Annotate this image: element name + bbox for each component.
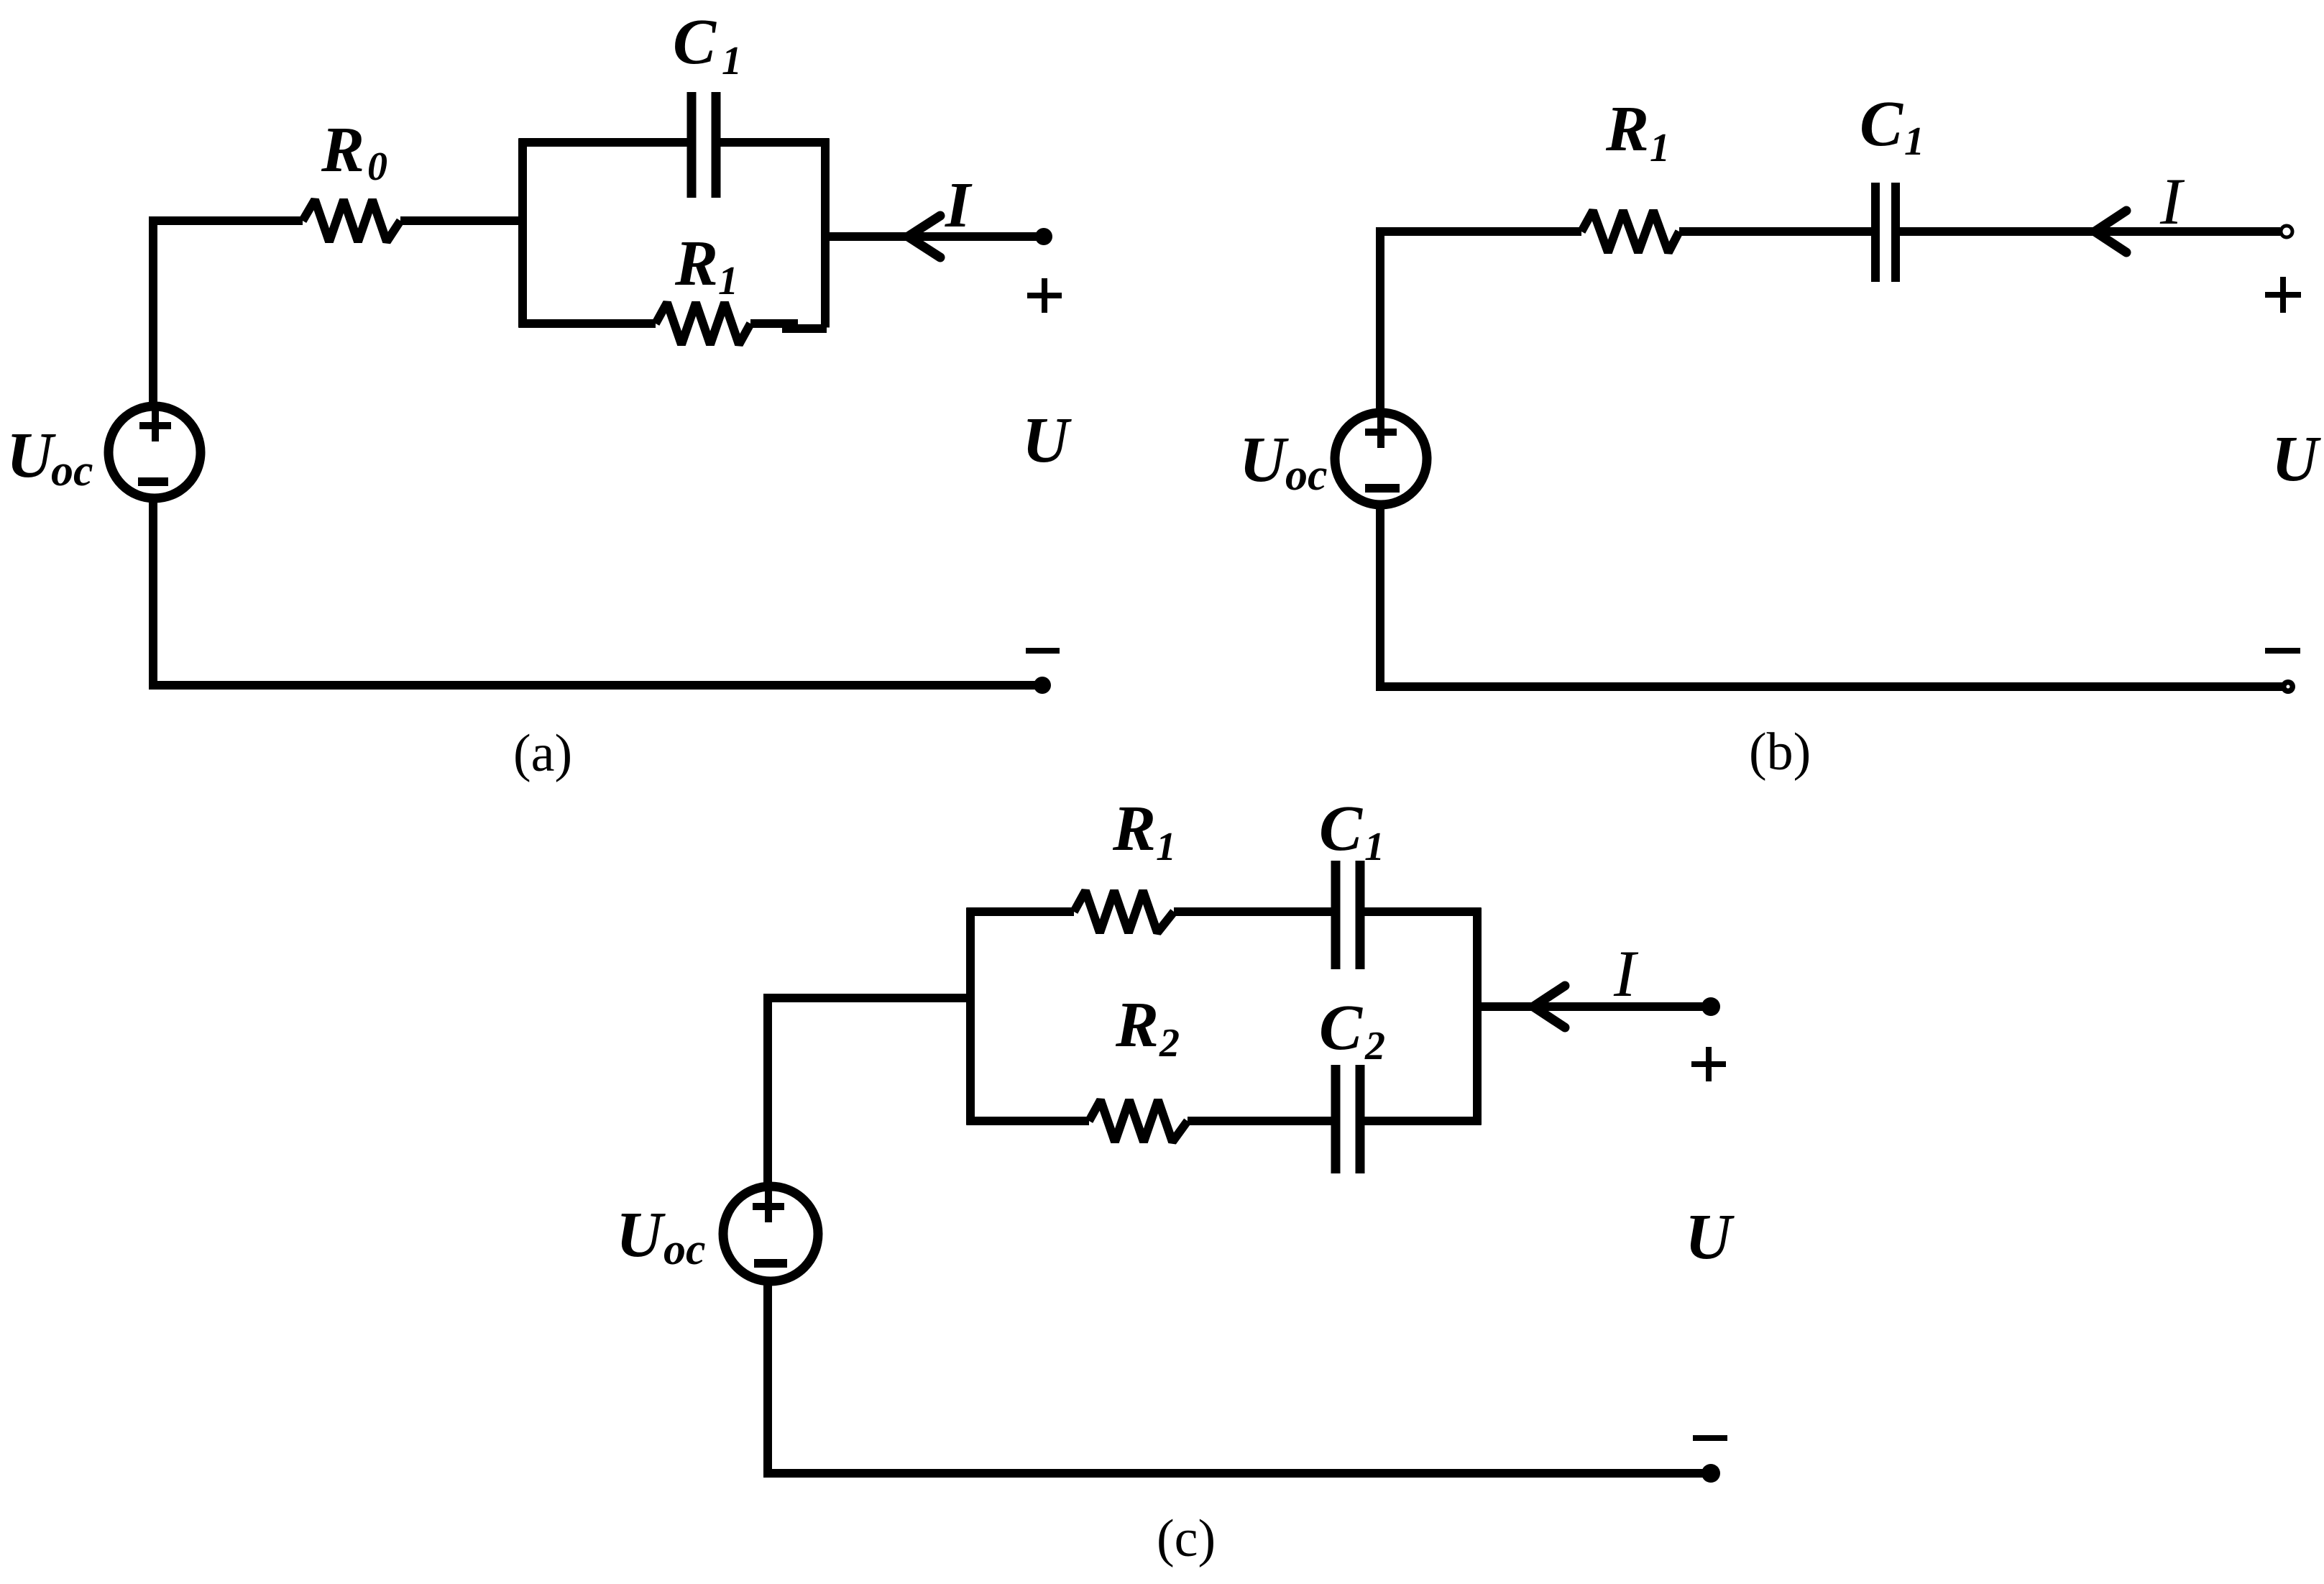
svg-text:U: U: [6, 420, 56, 491]
capacitor C2 left plate (c): [1331, 1065, 1341, 1173]
svg-text:R: R: [321, 114, 364, 186]
minus inside source (b): [1365, 484, 1400, 493]
output wire I (c): [1477, 1002, 1711, 1011]
svg-text:2: 2: [1159, 1021, 1180, 1066]
svg-text:oc: oc: [51, 447, 93, 495]
terminal dot top (a): [1035, 228, 1052, 245]
resistor R1 zigzag (a): [656, 303, 750, 344]
box top edge mid segment (c): [1174, 907, 1331, 916]
capacitor C1 right plate (c): [1356, 861, 1365, 969]
wire bottom loop (a): [153, 498, 1042, 685]
svg-text:R: R: [1605, 93, 1649, 165]
svg-text:U: U: [2272, 424, 2321, 495]
svg-text:I: I: [945, 170, 973, 241]
minus terminal sign (a): [1026, 648, 1060, 654]
wire R1 to C1 (b): [1679, 227, 1871, 236]
minus terminal sign (b): [2265, 648, 2300, 654]
svg-text:C: C: [1860, 88, 1903, 160]
resistor R1 zigzag (c): [1074, 891, 1174, 933]
svg-text:1: 1: [1650, 126, 1670, 170]
capacitor C1 right plate (a): [712, 92, 721, 198]
plus inside source (c): [753, 1191, 784, 1222]
svg-text:2: 2: [1364, 1024, 1385, 1068]
wire C1 to terminal (b): [1900, 227, 2280, 236]
wire top-left L (a): [153, 221, 303, 406]
box bottom edge mid segment (c): [1188, 1117, 1331, 1125]
svg-text:I: I: [1613, 937, 1639, 1010]
plus terminal sign (c): [1691, 1047, 1726, 1081]
plus terminal sign (a): [1027, 278, 1062, 313]
box right edge (c): [1473, 908, 1482, 1125]
box right edge (a): [821, 139, 830, 328]
box bottom edge right segment (a): [750, 319, 798, 328]
capacitor C2 right plate (c): [1356, 1065, 1365, 1173]
terminal ring top (b): [2281, 226, 2292, 237]
arrowhead I (c): [1533, 986, 1565, 1027]
capacitor C1 left plate (b): [1871, 183, 1880, 282]
svg-text:(c): (c): [1157, 1509, 1216, 1568]
svg-text:U: U: [1022, 405, 1072, 476]
wire top-left L (b): [1380, 232, 1581, 413]
capacitor C1 left plate (c): [1331, 861, 1341, 969]
svg-text:oc: oc: [1285, 451, 1328, 500]
minus inside source (a): [138, 477, 168, 486]
svg-text:1: 1: [718, 259, 738, 303]
terminal dot top (c): [1701, 997, 1720, 1016]
svg-text:1: 1: [1156, 825, 1176, 869]
capacitor C1 left plate (a): [687, 92, 697, 198]
box bottom edge right segment (c): [1364, 1117, 1482, 1125]
svg-text:(a): (a): [513, 724, 572, 783]
box bottom edge left segment (c): [967, 1117, 1090, 1125]
svg-text:R: R: [1112, 793, 1156, 864]
svg-text:C: C: [673, 6, 717, 78]
svg-text:0: 0: [367, 145, 387, 189]
svg-text:I: I: [2159, 165, 2185, 238]
svg-text:C: C: [1319, 992, 1363, 1063]
minus terminal sign (c): [1693, 1435, 1727, 1441]
terminal dot bottom (a): [1034, 677, 1051, 694]
voltage source circle Uoc (c): [723, 1186, 818, 1281]
arrowhead I (b): [2095, 211, 2126, 252]
wire bottom loop (b): [1380, 505, 2288, 687]
capacitor C1 right plate (b): [1891, 183, 1900, 282]
box left edge (a): [518, 139, 527, 328]
terminal dot bottom (c): [1701, 1464, 1720, 1483]
svg-text:U: U: [1685, 1201, 1735, 1273]
box top edge left segment (c): [967, 907, 1075, 916]
minus inside source (c): [754, 1259, 787, 1268]
arrowhead I (a): [908, 216, 940, 257]
svg-text:C: C: [1319, 793, 1363, 864]
voltage source circle Uoc (a): [109, 406, 201, 498]
plus inside source (b): [1365, 416, 1397, 448]
wire R0 to box (a): [400, 216, 523, 225]
wire bottom loop (c): [768, 1281, 1711, 1473]
svg-text:R: R: [674, 228, 718, 299]
box top edge right segment (c): [1364, 907, 1482, 916]
box bottom edge left segment (a): [519, 319, 656, 328]
box left edge (c): [966, 908, 975, 1125]
resistor R0 zigzag: [303, 200, 400, 242]
box top edge right segment (a): [720, 138, 830, 147]
svg-text:R: R: [1115, 989, 1159, 1061]
svg-text:oc: oc: [663, 1225, 706, 1274]
svg-text:1: 1: [1904, 119, 1924, 164]
svg-text:U: U: [1239, 424, 1289, 495]
svg-text:1: 1: [1364, 825, 1384, 869]
resistor R2 zigzag (c): [1089, 1100, 1188, 1142]
bottom edge artifact line (a): [782, 324, 827, 333]
output wire I (a): [825, 232, 1042, 241]
svg-text:U: U: [616, 1199, 666, 1271]
voltage source circle Uoc (b): [1335, 413, 1427, 505]
resistor R1 zigzag (b): [1581, 211, 1679, 252]
terminal dot bottom (b): [2281, 679, 2295, 694]
wire top-left L (c): [768, 998, 970, 1186]
box top edge left segment (a): [519, 138, 688, 147]
svg-text:(b): (b): [1749, 723, 1811, 782]
plus inside source (a): [139, 410, 171, 441]
svg-text:1: 1: [722, 39, 742, 83]
plus terminal sign (b): [2265, 277, 2301, 313]
